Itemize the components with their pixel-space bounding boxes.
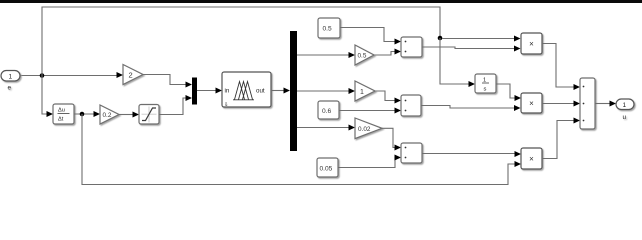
wire: derivative out to gain 0.2 [74, 113, 94, 115]
node A junction on e line [40, 73, 45, 78]
node C junction after derivative [80, 112, 85, 117]
svg-text:1: 1 [360, 89, 364, 96]
svg-text:0.5: 0.5 [323, 26, 332, 33]
derivative block du/dt [53, 104, 74, 124]
product X2 (multiply) [521, 93, 542, 113]
wire: product P3 out to product X3 input1 [422, 153, 515, 155]
product P3 [401, 143, 422, 163]
wire: X3 out up to sum input3 [542, 121, 574, 159]
demux D1 (black bar) [290, 31, 297, 151]
wire: constant 0.05 to product P3 input2 [338, 158, 396, 168]
wire: node B right into product X1 input 1 [442, 38, 515, 40]
outport 1 'u' [616, 99, 634, 121]
svg-text:Δt: Δt [58, 117, 64, 123]
gain K1 '2' [123, 65, 143, 85]
wire: gain 0.5 to product P1 input2 [374, 52, 395, 56]
wire: inport e to gain 2 [20, 75, 117, 77]
constant 0.05 [317, 158, 338, 177]
wire: demux out1 to gain 0.5 [297, 54, 349, 56]
svg-text:Δu: Δu [58, 108, 65, 114]
svg-text:×: × [529, 99, 534, 108]
svg-text:0.05: 0.05 [320, 166, 333, 173]
wire: demux out3 to gain 0.02 [297, 127, 349, 129]
gain K3 '0.5' [355, 45, 374, 65]
wire: e branch up along top to x=440 then down to node B [42, 7, 440, 76]
wire: sum out to outport u [595, 103, 610, 105]
wire: constant 0.6 to product P2 input2 [339, 110, 395, 112]
svg-text:out: out [256, 88, 265, 95]
fuzzy logic controller U1 [222, 72, 271, 108]
wire: gain 1 to product P2 input1 [375, 91, 395, 101]
wire: saturation out up to mux input 2 [159, 98, 186, 115]
svg-text:1: 1 [9, 74, 13, 81]
wire: X1 out down to sum input1 [542, 44, 574, 88]
svg-text:e: e [8, 85, 12, 92]
svg-text:0.02: 0.02 [358, 126, 371, 133]
svg-text:×: × [529, 40, 534, 49]
svg-text:in: in [225, 88, 230, 95]
product X1 (multiply) [521, 33, 542, 54]
product P2 [401, 95, 421, 116]
svg-text:s: s [484, 87, 487, 93]
inport 1 'e' [1, 71, 20, 92]
svg-text:1: 1 [483, 78, 486, 84]
product X3 (multiply) [521, 148, 542, 169]
wire: e branch down to derivative block [42, 76, 47, 115]
wire: gain 0.2 to saturation [119, 114, 133, 116]
svg-text:0.6: 0.6 [322, 108, 331, 115]
integrator 1/s [475, 74, 496, 93]
gain K4 '1' [355, 81, 375, 101]
wire: constant 0.5 to product P1 input1 [340, 28, 395, 42]
svg-text:×: × [529, 155, 534, 164]
wire: node C down along bottom to product X3 input 2 [82, 114, 515, 185]
node B junction at (440,38) [438, 36, 443, 41]
arrowhead into gain 2 [117, 72, 124, 78]
membership function icon [235, 82, 245, 100]
wire: product P1 out to product X1 input2 [422, 47, 515, 49]
constant 0.6 [318, 101, 339, 119]
wire: demux out2 to gain 1 [297, 90, 349, 92]
constant 0.5 [318, 18, 340, 38]
wire: gain 2 output to mux input 1 [143, 75, 186, 85]
saturation block [139, 105, 159, 125]
top border bar [0, 0, 642, 3]
gain K2 '0.2' [100, 105, 119, 124]
wire: X2 out to sum input2 [542, 103, 574, 105]
wire: mux out to fuzzy controller in [197, 90, 216, 92]
svg-text:⇓: ⇓ [224, 101, 229, 108]
wire: node B down then right into integrator 1/s [440, 38, 469, 84]
wire: product P2 out to product X2 input2 [421, 106, 515, 109]
product P1 [401, 37, 422, 57]
svg-text:0.5: 0.5 [358, 53, 367, 60]
svg-text:2: 2 [129, 71, 133, 80]
mux M1 (black bar) [192, 78, 197, 105]
sum block S1 [580, 78, 595, 129]
svg-text:1: 1 [623, 102, 627, 109]
wire: fuzzy out to demux [271, 90, 284, 92]
svg-text:0.2: 0.2 [103, 112, 112, 119]
svg-text:u: u [623, 114, 627, 121]
gain K5 '0.02' [355, 118, 382, 139]
wire: integrator out to product X2 input1 [496, 84, 515, 98]
wire: gain 0.02 to product P3 input1 [382, 128, 395, 147]
